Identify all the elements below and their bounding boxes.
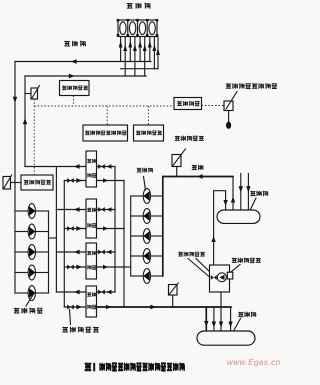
dashed drop: bus to valve controller [106,106,108,125]
valve on chiller 1 condenser inlet (left bottom) [64,178,86,183]
wire: tower return header (y=68.7) [121,68,158,70]
valve on chiller 3 evaporator return (right top) [97,250,116,255]
valve on chiller 2 condenser inlet (left bottom) [64,226,86,231]
chilled water pump 5 [131,269,163,284]
wire: chilled water supply main (y=307) with arrows [97,305,232,310]
valve on chiller 4 condenser inlet (left bottom) [64,305,86,310]
dashed drop: sensor to field controller 3 [33,99,35,175]
wire: chiller 2 evaporator outlet (right bottom) with right arrow [97,226,125,230]
label 分水器 (water distributor) with leader [233,312,256,332]
wire: cooling water return line to tower (y=76) with right arrow [25,74,146,79]
wire: cooling pump discharge bus x=48.5 [48,211,50,293]
wire: collector outlet riser with up arrow [231,177,235,211]
field controller 3 box 现场控制器 [21,175,53,190]
dashed link: main controller to outdoor sensor [202,105,225,107]
label 水温传感器 (water temp sensor) [175,136,204,141]
chilled water pump 2 [131,209,163,224]
label 集水器 (water collector) with leader [247,191,268,217]
wire: cooling water return riser x=25 with up arrow [23,76,27,167]
dashed control bus (horizontal) [34,105,174,107]
svg-text:www.Egas.cn: www.Egas.cn [227,358,280,367]
chilled water pump 3 [131,229,163,244]
main controller box 主控制器 [174,98,202,110]
valve on chiller 4 evaporator return (right top) [97,290,116,295]
wire: chilled water return line y=176.5 with left arrow [163,174,233,179]
wire: chilled pump suction bus x=162.8 [162,177,164,276]
wire: condenser return bus x=56.4 [55,167,57,293]
chiller unit 2 box 冷水机组 [86,199,97,238]
wire: chiller 2 condenser outlet (left top) with left arrow [56,207,86,212]
cooling water pump 5 [15,286,49,301]
valve on chiller 2 evaporator return (right top) [97,207,116,212]
cooling water pump 2 [15,224,49,239]
wire: evaporator return bus x=115 [114,167,116,293]
dashed drop: field controller 1 to bus [72,96,74,107]
electric control valve controller box 电动调节阀控制器 [83,125,128,141]
field controller 2 box 现场控制器 [134,125,164,141]
cooling tower (4-cell) with fans [117,19,159,37]
wire: supply main drop into distributor with down arrow [204,307,208,331]
wire: tower cell drop pipes with up arrows [119,37,152,61]
water collector capsule [217,210,260,223]
label 冷水泵 (chilled water pumps) with leader [137,168,153,190]
chilled water pump 4 [131,249,163,264]
label 冷却塔 (cooling tower) [127,3,150,9]
wire: chiller 3 condenser outlet (left top) with left arrow [56,250,86,255]
label 冷却水泵 (cooling water pumps) with leader [14,294,43,314]
wire: chiller 3 evaporator outlet (right bottom) with right arrow [97,265,125,269]
cooling water pump 4 [15,265,49,280]
label 冷却水 (cooling water) [64,41,85,47]
wire: left supply downcomer x=15 with down arrow [13,62,17,294]
wire: right riser into tower with up arrow [156,37,160,69]
outdoor temperature/humidity sensor [224,92,237,129]
valve on chiller 1 evaporator return (right top) [97,164,116,169]
label 压差传感器 (pressure differential sensor) with leader [232,258,261,272]
label 室外温湿度传感器 (outdoor temp/humidity sensor) [226,83,277,89]
wire: tower spray risers with up arrows [123,37,156,76]
field controller 1 box 现场控制器 [60,81,90,96]
chiller unit 3 box 冷水机组 [86,243,97,279]
wire: link pump bus to chiller bus [49,237,57,239]
wire: evaporator supply bus x=124 [123,181,125,308]
dashed drop: bus to field controller 2 [147,106,149,125]
wire: link bus x=124 to x=130.7 [124,266,131,268]
wire: bypass riser from balance valve to collector with arrows [211,191,227,265]
label 电动调节阀 (electric control valve) with leader [62,310,98,333]
wire: building return pipes into collector with down arrows [239,174,251,211]
label 冷水 (chilled water) [192,165,204,170]
cooling water pump 1 [15,204,49,219]
caption 图1 空调系统的智能群控系统设备组成 [85,363,185,372]
sensor on chilled supply main [169,283,179,307]
valve on chiller 3 condenser inlet (left bottom) [64,265,86,270]
chiller unit 4 box 冷水机组 [86,286,97,317]
water temperature sensor on return line [172,149,185,177]
cooling water pump 3 [15,245,49,260]
wire: tower basin outlet header (y=61.5) [15,59,151,64]
water distributor capsule [197,331,255,345]
sensor at far left connected to field controller 3 [3,175,21,189]
wire: condenser supply bus x=64.3 [63,181,65,308]
wire: bypass from distributor up to valve assembly [220,292,222,331]
wire: chiller 1 evaporator outlet (right bottom) with right arrow [97,178,125,182]
pressure balance valve assembly [210,265,233,292]
wire: chiller 1 condenser outlet (left top) with left arrow [25,164,86,169]
wire: chiller 4 condenser outlet (left top) with left arrow [56,290,86,295]
wire: chilled pump discharge bus x=130.7 [130,196,132,276]
label 压差平衡阀 (pressure balance valve) with leaders [178,252,210,277]
red watermark [227,358,281,367]
temperature sensor on cooling water return pipe [25,86,40,100]
chilled water pump 1 [131,189,163,204]
wire: distributor risers with down arrows [212,307,233,331]
chiller unit 1 box 冷水机组 [86,151,97,187]
